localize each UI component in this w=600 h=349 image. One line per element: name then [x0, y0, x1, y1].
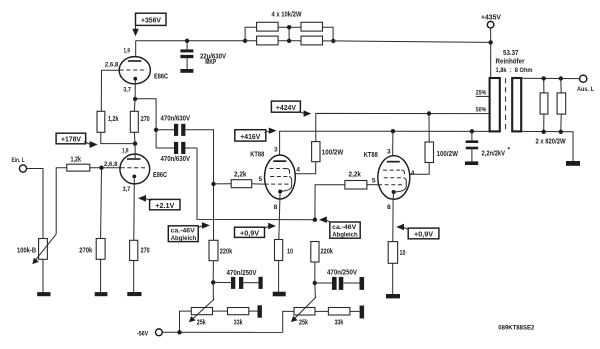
terminal +435V: [487, 21, 494, 28]
wire screen rail (50% tap): [316, 113, 490, 141]
wire bias node no.1 to cap: [213, 281, 231, 283]
svg-text:220k: 220k: [220, 246, 233, 255]
svg-text:+416V: +416V: [240, 132, 260, 141]
svg-text:100k-B: 100k-B: [17, 246, 36, 255]
wire +0,9V no.1 arrow stem: [265, 226, 270, 228]
svg-text:1,2k: 1,2k: [71, 155, 82, 164]
wire 10 no.1 to ground: [278, 261, 280, 292]
arrow pointing down to B+ node: [132, 29, 139, 36]
ground below secondary: [566, 161, 580, 166]
ground right of cap no.2: [360, 277, 365, 290]
svg-text:25%: 25%: [476, 89, 487, 96]
resistor 270 (lower cathode): [130, 240, 138, 260]
wire stem from +356V box to arrow: [135, 25, 137, 29]
wire 1,2k to grid junction: [90, 167, 121, 169]
capacitor 2,2n/2kV: [466, 131, 479, 161]
wire pot no.2 left to -56V rail: [283, 311, 294, 332]
wire bottom-left 10k leads: [245, 40, 257, 42]
junction -56V rail pot no.1: [177, 330, 181, 334]
tube KT88 no.2: [378, 156, 410, 200]
resistor 220k (KT88 no.2 grid leak): [311, 242, 319, 263]
svg-text:53.37: 53.37: [503, 48, 519, 57]
wire KT88 no.2 grid riser: [315, 185, 345, 220]
svg-text:270: 270: [141, 246, 150, 255]
resistor 10 (KT88 no.1 cathode): [275, 240, 283, 261]
junction screen rail to KT88 no.2: [427, 111, 431, 115]
svg-text:E86C: E86C: [154, 72, 169, 81]
wire OPT primary feed: [490, 42, 492, 78]
junction 820 no.2 bottom: [559, 130, 563, 134]
wire pot bottom to ground: [42, 259, 44, 292]
wire 10k network left riser: [245, 27, 257, 41]
wire lower anode lead: [134, 144, 136, 159]
svg-text:1,2k: 1,2k: [108, 114, 119, 123]
ground below 270: [127, 292, 141, 296]
ground below 2,2n cap: [465, 161, 478, 165]
svg-text:+0,9V: +0,9V: [414, 230, 433, 239]
wire 10k network right riser: [323, 27, 334, 41]
svg-text:2,2n/2kV: 2,2n/2kV: [482, 149, 506, 158]
wire cap1 right to KT88 no.1 grid column: [185, 130, 213, 241]
svg-text:3,7: 3,7: [123, 86, 131, 93]
resistor 100/2W (KT88 no.1 screen): [312, 142, 320, 162]
svg-text:ca.-46V: ca.-46V: [171, 228, 196, 235]
junction KT88 no.1 grid node: [211, 182, 215, 186]
wire pot no.1 to 33k no.1: [213, 310, 228, 312]
junction grid rail KT88 no.2: [313, 218, 317, 222]
wire secondary top lead: [521, 77, 579, 79]
arrow ca.-46V no.1 pointing right: [202, 222, 210, 229]
wire anode drop upper E86C: [135, 41, 137, 60]
wire KT88 no.2 anode drop: [392, 131, 394, 161]
junction 10k mid top: [287, 25, 291, 29]
wire KT88 no.1 cathode drop: [279, 199, 280, 240]
transformer secondary: [512, 78, 521, 131]
svg-text:KT88: KT88: [364, 150, 378, 159]
junction 820 no.1 bottom: [542, 130, 546, 134]
junction 820 no.2 top: [559, 76, 563, 80]
wire cathode node to coupling caps: [135, 99, 156, 148]
wire cap1 left lead: [156, 129, 174, 131]
wire cap2 left lead: [156, 147, 174, 149]
wire B+ rail right segment to +435V: [333, 41, 490, 43]
svg-text:8: 8: [274, 204, 278, 211]
svg-text:+424V: +424V: [276, 103, 296, 112]
node +424V label box: [271, 101, 300, 112]
svg-text:+435V: +435V: [481, 13, 501, 22]
svg-text:+2.1V: +2.1V: [155, 201, 174, 210]
svg-text:Ein. L: Ein. L: [12, 157, 25, 164]
resistor 220k (KT88 no.1 grid leak): [209, 240, 218, 260]
wire input to volume pot: [27, 169, 43, 239]
svg-text:470n/250V: 470n/250V: [227, 268, 257, 277]
junction bias node no.2: [313, 281, 317, 285]
svg-text:50%: 50%: [476, 106, 487, 113]
transformer core dashed line: [505, 78, 507, 132]
capacitor 470n/250V no.1: [231, 277, 243, 289]
ground right of 33k no.2: [360, 306, 365, 319]
arrow +424V pointing right: [304, 110, 312, 116]
arrow +178V pointing right: [90, 141, 98, 148]
wire anode rail: [280, 131, 490, 160]
wire 22u cap top lead: [186, 41, 188, 50]
resistor 33k no.1: [228, 308, 249, 315]
wire bias node no.2 to cap: [315, 282, 332, 284]
terminal -56V: [156, 329, 163, 336]
svg-text:100/2W: 100/2W: [437, 149, 459, 158]
resistor 2,2k (KT88 no.1 grid stopper): [231, 180, 252, 188]
wire +178V arrow stem: [84, 142, 91, 145]
svg-text:4: 4: [411, 170, 415, 177]
svg-text:100/2W: 100/2W: [322, 147, 344, 156]
wire 220k no.1 to bias node: [212, 261, 214, 283]
wire KT88 no.2 cathode drop: [392, 200, 394, 242]
wire secondary bottom lead: [521, 131, 573, 161]
tube KT88 no.1: [265, 155, 296, 199]
resistor 2,2k (KT88 no.2 grid stopper): [345, 181, 367, 190]
svg-text:2,6,8: 2,6,8: [105, 61, 119, 68]
terminal Ein. L: [19, 165, 26, 172]
arrow +0,9V no.2 pointing left: [396, 224, 404, 231]
node +2.1V label box: [150, 199, 180, 210]
wire upper grid run: [101, 70, 119, 111]
node +356V label box: [136, 13, 167, 25]
capacitor 470n/630V (lower): [174, 142, 185, 154]
svg-text:+356V: +356V: [141, 16, 161, 25]
svg-text:33k: 33k: [234, 317, 243, 326]
wire cap2 right to grid rail: [185, 148, 315, 220]
ground right of cap no.1: [259, 277, 263, 289]
junction 22u cap node: [185, 39, 189, 43]
svg-text:25k: 25k: [299, 317, 309, 326]
capacitor 22u/630V MKP: [180, 49, 193, 58]
wire 220k no.2 to bias node: [314, 262, 316, 283]
svg-text:1,8k : 8 Ohm: 1,8k : 8 Ohm: [496, 67, 533, 74]
resistor 820/2W no.2: [557, 79, 566, 132]
wire 2,2k no.2 to pin 5: [367, 184, 378, 186]
svg-text:3: 3: [387, 148, 391, 155]
wire middle links of 10k network: [278, 27, 301, 41]
svg-text:+178V: +178V: [61, 135, 81, 144]
arrow ca.-46V no.2 pointing left: [319, 216, 327, 223]
node +416V label box: [235, 130, 266, 141]
wire 2,2k no.1 to pin 5: [252, 183, 265, 185]
svg-text:4: 4: [296, 167, 300, 174]
wire +416V arrow stem: [265, 131, 270, 133]
svg-text:220k: 220k: [321, 246, 334, 255]
arrow +2.1V pointing left: [138, 195, 146, 202]
resistor 1,2k (upper grid to lower anode): [97, 111, 105, 132]
svg-text:10: 10: [400, 248, 406, 257]
ground below 270k: [95, 292, 108, 296]
wire 33k no.1 to ground: [249, 310, 258, 312]
resistor 10k (top-left): [257, 22, 279, 31]
wire ca.-46V no.1 arrow stem: [198, 225, 203, 227]
junction bias node no.1: [211, 280, 215, 284]
tube E86C upper (SRPP top): [119, 57, 150, 99]
resistor 10 (KT88 no.2 cathode): [388, 242, 397, 264]
node +178V label box: [56, 133, 86, 144]
junction B+ rail to OPT: [489, 40, 493, 44]
svg-text:33k: 33k: [335, 317, 344, 326]
svg-text:ca.-46V: ca.-46V: [332, 224, 357, 231]
svg-text:2 x 820/2W: 2 x 820/2W: [536, 137, 566, 146]
wire pot wiper to grid resistor: [56, 168, 67, 234]
wire 22u cap bottom lead: [186, 58, 188, 69]
terminal Aus. L: [580, 75, 587, 82]
resistor 270k (grid leak): [96, 239, 105, 260]
ground right of 33k no.1: [258, 305, 262, 317]
resistor 10k (bottom-right): [301, 36, 323, 45]
svg-text:*: *: [508, 147, 511, 154]
svg-text:KT88: KT88: [250, 150, 264, 159]
svg-text:E86C: E86C: [153, 170, 168, 179]
label 22u/630V MKP: [200, 51, 226, 66]
svg-text:470n/250V: 470n/250V: [327, 268, 357, 277]
wire screen no.2 drop: [428, 114, 430, 143]
capacitor 470n/630V (upper): [174, 124, 185, 136]
junction left of 10k network: [243, 39, 247, 43]
junction right of 10k network: [331, 39, 335, 43]
wire ca.-46V no.2 arrow stem: [326, 220, 331, 222]
junction 10k mid bottom: [287, 39, 291, 43]
wire screen no.2 to pin 4: [405, 163, 430, 175]
junction anode rail 2,2n cap: [470, 129, 474, 133]
svg-text:1,9: 1,9: [122, 147, 129, 154]
transformer 53.37 Reinhoefer primary: [490, 78, 500, 131]
svg-text:10: 10: [287, 246, 293, 255]
svg-text:3,7: 3,7: [123, 186, 131, 193]
wire 270k bottom to ground: [100, 259, 102, 292]
wire 270 bottom to anode node: [133, 132, 136, 143]
resistor 270 (between stages): [130, 111, 138, 132]
wire 33k no.2 to ground: [350, 310, 360, 312]
wire pot no.1 left to -56V rail: [180, 311, 192, 332]
wire bias node no.2 to pot wiper: [314, 283, 317, 298]
svg-text:2,6,8: 2,6,8: [104, 161, 118, 168]
ground below 100k-B: [37, 292, 50, 296]
wire +424V arrow stem: [299, 112, 305, 114]
wire cap no.1 to ground: [243, 282, 258, 284]
node +0,9V label box no.1: [235, 227, 265, 237]
svg-text:2,2k: 2,2k: [349, 169, 362, 178]
node +0,9V label box no.2: [408, 228, 439, 239]
junction 820 no.1 top: [542, 76, 546, 80]
tube E86C lower: [120, 154, 150, 184]
svg-text:470n/630V: 470n/630V: [161, 114, 191, 123]
junction lower anode node: [133, 141, 137, 145]
resistor 33k no.2: [328, 308, 350, 316]
svg-text:5: 5: [372, 178, 376, 185]
svg-text:25k: 25k: [197, 317, 207, 326]
svg-text:+0,9V: +0,9V: [240, 229, 259, 238]
arrow +416V pointing right: [269, 128, 277, 134]
svg-text:1,9: 1,9: [124, 48, 131, 55]
wire screen no.1 to pin 4: [290, 162, 316, 174]
svg-text:Reinhöfer: Reinhöfer: [496, 57, 525, 66]
svg-text:Abgleich: Abgleich: [332, 231, 358, 238]
wire +435V terminal to rail: [490, 28, 492, 42]
wire lower cathode drop: [133, 178, 136, 240]
potentiometer 25k no.1: [189, 299, 214, 322]
wire 10 no.2 to ground: [392, 263, 394, 294]
wire grid node down to 270k: [100, 168, 103, 239]
svg-text:470n/630V: 470n/630V: [161, 154, 191, 163]
junction lower grid node: [99, 166, 103, 170]
svg-text:270: 270: [141, 114, 150, 123]
svg-text:-56V: -56V: [137, 330, 149, 337]
svg-text:5: 5: [259, 176, 263, 183]
wire 270 bottom to ground: [133, 261, 135, 293]
junction coupling cap 1 tap: [154, 128, 158, 132]
wire 25% tap stub: [476, 95, 490, 97]
junction anode rail KT88 no.2: [391, 129, 395, 133]
wire +2.1V arrow stem: [145, 198, 151, 200]
resistor 10k (bottom-left): [257, 36, 279, 45]
resistor 10k (top-right): [301, 22, 323, 31]
svg-text:270k: 270k: [79, 246, 93, 255]
capacitor 470n/250V no.2: [332, 277, 343, 290]
wire cap no.2 to ground: [343, 282, 359, 284]
svg-text:4 x 10k/2W: 4 x 10k/2W: [272, 9, 302, 18]
ground below 22u cap: [180, 69, 193, 73]
svg-text:3: 3: [274, 147, 278, 154]
svg-text:8: 8: [387, 204, 391, 211]
wire bias node no.1 to pot wiper: [212, 282, 214, 299]
ground below 10 no.2: [386, 294, 400, 298]
junction upper cathode node: [133, 97, 137, 101]
wire 1,2k bottom to anode node: [101, 132, 135, 143]
svg-text:MKP: MKP: [205, 57, 216, 66]
ground below 10 no.1: [273, 292, 286, 297]
wire -56V rail: [162, 331, 282, 333]
svg-text:2,2k: 2,2k: [234, 170, 247, 179]
wire pot no.2 to 33k no.2: [315, 310, 328, 312]
potentiometer 100k-B: [32, 234, 56, 264]
wire B+ rail left segment: [136, 40, 245, 42]
svg-text:Aus. L: Aus. L: [577, 86, 594, 93]
potentiometer 25k no.2: [291, 297, 316, 322]
wire +0,9V no.2 arrow stem: [403, 227, 408, 229]
wire cathode node to 270 top: [133, 99, 136, 111]
resistor 1,2k (lower grid stopper): [67, 164, 90, 171]
resistor 100/2W (KT88 no.2 screen): [425, 142, 434, 163]
wire bottom-right 10k lead: [323, 40, 334, 42]
wire grid node to 2,2k no.1: [214, 183, 232, 185]
arrow +0,9V no.1 pointing right: [268, 223, 276, 230]
svg-text:089KT88SE2: 089KT88SE2: [498, 325, 534, 332]
node ca.-46V Abgleich box no.2: [330, 222, 360, 238]
node ca.-46V Abgleich box no.1: [168, 226, 198, 242]
resistor 820/2W no.1: [540, 78, 548, 131]
svg-text:Abgleich: Abgleich: [171, 235, 197, 242]
